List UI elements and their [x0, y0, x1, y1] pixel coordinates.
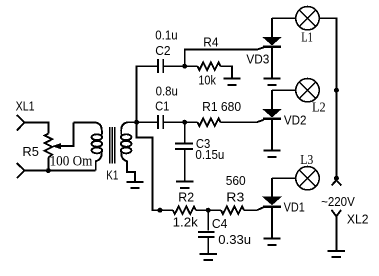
thyristor VD3 gate wire	[257, 47, 264, 49]
node A junction dot	[134, 120, 139, 125]
label 0.33u	[218, 232, 251, 247]
svg-text:XL1: XL1	[16, 98, 35, 113]
connector XL1 pin 2	[17, 163, 25, 178]
label 560	[226, 173, 246, 188]
wire	[185, 50, 257, 67]
resistor R1	[185, 118, 257, 126]
label 0.8u	[156, 84, 178, 99]
transformer K1 secondary winding	[121, 122, 137, 181]
junction dot (R2 left)	[158, 208, 163, 213]
thyristor VD1 gate wire	[258, 207, 264, 210]
wire	[163, 121, 185, 123]
thyristor VD2 gate wire	[257, 120, 264, 123]
label R5	[22, 144, 39, 159]
label C2	[155, 43, 170, 58]
junction dot (L3/bus/XL2)	[334, 176, 339, 181]
thyristor VD1	[263, 178, 281, 229]
label XL2	[347, 211, 369, 226]
label C1	[155, 99, 169, 114]
label C3	[196, 136, 210, 151]
wire	[272, 177, 296, 179]
svg-text:K1: K1	[106, 167, 118, 182]
wire	[272, 89, 296, 91]
thyristor VD2	[263, 90, 281, 142]
thyristor VD3	[263, 18, 281, 70]
label VD1	[284, 199, 305, 214]
connector XL2 pin	[332, 210, 342, 249]
connector XL1 pin 1	[17, 115, 25, 131]
ground (VD1)	[263, 228, 280, 245]
svg-text:R3: R3	[226, 190, 244, 205]
label R4	[203, 35, 218, 50]
svg-text:0.8u: 0.8u	[156, 84, 178, 99]
lamp L2	[296, 79, 319, 102]
resistor R2	[173, 206, 208, 214]
ground (R4)	[223, 68, 240, 85]
junction dot (R2/R3/C4)	[206, 208, 211, 213]
label 100 Om	[50, 153, 93, 169]
potentiometer R5	[45, 134, 53, 171]
svg-text:0.15u: 0.15u	[195, 147, 224, 162]
svg-text:C4: C4	[212, 216, 228, 231]
connector XL1 label	[16, 98, 35, 113]
capacitor C3	[175, 122, 193, 180]
lamp L1	[296, 7, 319, 30]
connector XL2 socket pin	[332, 180, 342, 185]
label 10k	[198, 72, 216, 87]
transformer K1 core	[110, 127, 115, 163]
ground (VD2)	[263, 140, 280, 157]
resistor R3	[208, 206, 257, 214]
svg-text:100 Om: 100 Om	[50, 153, 93, 169]
svg-text:VD2: VD2	[284, 112, 307, 127]
resistor R4	[185, 62, 232, 70]
capacitor C1	[158, 115, 163, 129]
ground (transformer)	[126, 180, 143, 188]
wire	[25, 122, 49, 133]
ground (C4)	[200, 251, 217, 260]
wire	[137, 121, 158, 123]
lamp L3	[296, 167, 319, 190]
ground (VD3)	[263, 68, 280, 85]
label 1.2k	[173, 214, 199, 229]
label 0.15u	[195, 147, 224, 162]
label L3	[300, 153, 313, 168]
label VD3	[246, 52, 269, 67]
wire	[25, 170, 96, 172]
svg-text:0.33u: 0.33u	[218, 232, 251, 247]
wire	[319, 18, 336, 178]
svg-text:R2: R2	[178, 189, 194, 204]
svg-text:0.1u: 0.1u	[155, 28, 177, 43]
label K1	[106, 167, 118, 182]
label R3	[226, 190, 244, 205]
label 0.1u	[155, 28, 177, 43]
wire	[272, 17, 296, 19]
svg-text:560: 560	[226, 173, 246, 188]
svg-text:1.2k: 1.2k	[173, 214, 199, 229]
junction dot (C2/R4/gate)	[182, 64, 187, 69]
label C4	[212, 216, 228, 231]
potentiometer R5 wiper arrow	[53, 122, 74, 148]
label L2	[312, 101, 326, 116]
svg-text:C1: C1	[155, 99, 169, 114]
wire	[163, 65, 185, 67]
label VD2	[284, 112, 307, 127]
capacitor C4	[198, 210, 215, 252]
label R2	[178, 189, 194, 204]
wire	[137, 122, 173, 210]
svg-text:R4: R4	[203, 35, 218, 50]
svg-text:VD1: VD1	[284, 199, 305, 214]
label L1	[301, 30, 313, 45]
wire	[137, 66, 158, 122]
ground (C3)	[176, 179, 193, 188]
svg-text:~220V: ~220V	[321, 194, 355, 209]
junction dot (L2/bus)	[334, 88, 339, 93]
label R1 680	[202, 99, 241, 114]
capacitor C2	[158, 59, 163, 73]
label ~220V	[321, 194, 355, 209]
svg-text:VD3: VD3	[246, 52, 269, 67]
svg-text:L2: L2	[312, 101, 326, 116]
node B junction dot	[182, 120, 187, 125]
svg-text:R1 680: R1 680	[202, 99, 241, 114]
svg-text:L3: L3	[300, 153, 313, 168]
svg-text:10k: 10k	[198, 72, 216, 87]
svg-text:XL2: XL2	[347, 211, 369, 226]
svg-text:R5: R5	[22, 144, 39, 159]
ground (XL2)	[328, 248, 345, 257]
svg-text:C2: C2	[155, 43, 170, 58]
svg-text:L1: L1	[301, 30, 313, 45]
transformer K1 primary winding	[74, 122, 103, 170]
junction dot	[46, 168, 51, 173]
